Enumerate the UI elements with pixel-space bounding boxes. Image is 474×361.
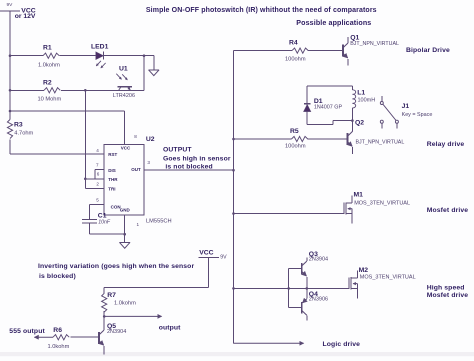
svg-text:U2: U2: [146, 136, 155, 143]
svg-text:3: 3: [147, 160, 150, 165]
junction C1 / GND lead: [123, 233, 126, 236]
junction R7 / Q5 collector / output: [103, 315, 106, 318]
svg-text:MOS_3TEN_VIRTUAL: MOS_3TEN_VIRTUAL: [354, 200, 410, 206]
svg-text:9V: 9V: [7, 2, 14, 8]
transistor Q5 slants: [99, 330, 104, 335]
inductor L1 coil: [352, 90, 355, 108]
svg-text:R3: R3: [14, 121, 23, 128]
ground G2 stub and bar: [119, 215, 130, 243]
LED LED1 body: [96, 52, 104, 60]
svg-text:High speed: High speed: [427, 284, 465, 291]
power VCC2: [199, 258, 219, 288]
ground G2 vee: [119, 242, 130, 248]
wire Q3 collector/emitter leads: [306, 257, 308, 288]
svg-text:Key = Space: Key = Space: [402, 112, 433, 118]
transistor Q1 collector/emitter slants: [343, 43, 348, 48]
junction rail-R1: [9, 54, 12, 57]
svg-text:BJT_NPN_VIRTUAL: BJT_NPN_VIRTUAL: [350, 41, 399, 47]
wire Q2 collector/emitter leads: [352, 121, 354, 154]
wire logic drive with arrow: [234, 342, 304, 344]
svg-text:10 Mohm: 10 Mohm: [38, 96, 62, 102]
junction bus-OUT: [232, 169, 235, 172]
svg-text:OUTPUT: OUTPUT: [163, 147, 192, 154]
svg-text:Simple ON-OFF photoswitch (IR): Simple ON-OFF photoswitch (IR) whithout …: [146, 7, 377, 14]
ground G1 vee: [149, 70, 160, 76]
transistor Q4 slants: [303, 299, 307, 303]
junction bus-R5: [232, 138, 235, 141]
ground G1 stub and bar: [149, 56, 160, 70]
switch J1 lever and contacts: [383, 104, 396, 120]
svg-text:1.0kohm: 1.0kohm: [48, 344, 70, 350]
junction bus-pushpull: [232, 287, 235, 290]
switch J1 stubs: [382, 96, 397, 129]
resistor R7 leads: [103, 288, 105, 317]
diode D1 body: [304, 105, 311, 112]
svg-text:MOS_3TEN_VIRTUAL: MOS_3TEN_VIRTUAL: [360, 274, 416, 280]
svg-text:OUT: OUT: [131, 167, 141, 172]
wire LED to ground: [103, 55, 153, 57]
LED LED1 emission arrows: [96, 61, 101, 66]
svg-text:4: 4: [96, 148, 99, 153]
svg-text:2N3904: 2N3904: [309, 257, 328, 263]
wire R1 branch: [10, 55, 96, 57]
transistor Q2 base bar: [347, 133, 349, 145]
svg-text:BJT_NPN_VIRTUAL: BJT_NPN_VIRTUAL: [356, 140, 405, 146]
svg-text:LTR4206: LTR4206: [113, 93, 135, 99]
op-amp U2 LM555CH box: [104, 145, 144, 215]
phototransistor U1 base bar: [117, 86, 132, 88]
wire D1 loop: [307, 86, 352, 125]
resistor R7: [102, 293, 107, 312]
wire VCC to pin8: [10, 111, 125, 145]
power VCC1 9V/12V rail symbol: [0, 11, 20, 120]
wire OUT pin3: [144, 169, 234, 171]
svg-text:Mosfet drive: Mosfet drive: [427, 292, 469, 299]
wire R2 branch: [10, 89, 144, 91]
svg-text:R4: R4: [289, 39, 298, 46]
transistor Q1 base bar: [342, 45, 344, 57]
svg-text:output: output: [159, 325, 181, 332]
svg-text:8: 8: [134, 134, 137, 139]
wire Q1 collector/emitter leads: [347, 37, 349, 66]
junction bus-M1: [232, 212, 235, 215]
wire output with arrow: [104, 315, 161, 317]
junction R2 wire / TRI riser: [84, 89, 87, 92]
junction Q3 Q4 emitters: [306, 287, 309, 290]
svg-text:U1: U1: [119, 66, 128, 73]
svg-text:RST: RST: [108, 152, 117, 157]
wire M1 branch: [234, 213, 344, 215]
svg-text:1.0kohm: 1.0kohm: [114, 301, 136, 307]
junction Q3 Q4 base riser: [287, 287, 290, 290]
capacitor C1: [82, 219, 97, 223]
junction rail-VCC pin8 wire: [9, 110, 12, 113]
svg-text:C1: C1: [98, 212, 107, 219]
svg-text:10nF: 10nF: [98, 219, 111, 225]
LED1 cathode bar: [102, 52, 104, 60]
svg-text:Logic drive: Logic drive: [323, 341, 361, 348]
svg-text:1: 1: [137, 222, 140, 227]
svg-text:LED1: LED1: [91, 43, 109, 50]
resistor R3: [7, 120, 12, 139]
svg-text:GND: GND: [120, 207, 131, 212]
phototransistor U1 legs and photon arrows: [119, 87, 121, 90]
wire push-pull branch: [234, 287, 350, 289]
wire base riser: [288, 269, 290, 308]
svg-text:100ohm: 100ohm: [285, 144, 306, 150]
svg-text:THR: THR: [108, 177, 118, 182]
wire DIS/THR/TRI plumbing: [85, 90, 104, 188]
svg-text:or 12V: or 12V: [15, 13, 36, 20]
svg-text:Possible applications: Possible applications: [296, 19, 371, 27]
wire bus: [233, 51, 235, 344]
svg-text:1N4007 GP: 1N4007 GP: [314, 105, 343, 111]
mosfet M2 bars and leads: [348, 277, 350, 289]
wire R6 leads: [71, 336, 100, 338]
wire CON to C1: [90, 205, 105, 219]
resistor R2: [44, 88, 60, 93]
svg-text:9V: 9V: [220, 255, 227, 261]
transistor Q4 base wire and bar: [289, 307, 302, 309]
junction D1 loop / Q2 collector: [351, 119, 354, 122]
svg-text:R5: R5: [290, 128, 299, 135]
transistor Q5 base bar: [98, 332, 100, 344]
wire collector riser: [143, 56, 145, 91]
svg-text:5: 5: [96, 197, 99, 202]
resistor R1: [43, 53, 59, 58]
svg-text:L1: L1: [357, 89, 365, 96]
svg-text:Mosfet drive: Mosfet drive: [427, 207, 469, 214]
svg-text:TRI: TRI: [108, 187, 115, 192]
svg-text:Goes high in sensor: Goes high in sensor: [163, 155, 231, 162]
svg-text:100ohm: 100ohm: [285, 57, 306, 63]
junction LED wire / U1 collector riser: [143, 54, 146, 57]
transistor Q3 base wire and bar: [289, 268, 302, 270]
diode D1 cathode bar: [304, 103, 311, 105]
inductor L1 leads: [351, 86, 353, 121]
svg-text:2: 2: [96, 182, 99, 187]
svg-text:VCC: VCC: [199, 249, 213, 256]
svg-text:DIS: DIS: [108, 168, 116, 173]
junction THR stub: [84, 178, 87, 181]
wire left rail lower: [9, 140, 11, 155]
junction rail-R2: [9, 89, 12, 92]
transistor Q3 slants: [302, 261, 307, 266]
mosfet M1 bars and leads: [343, 203, 345, 215]
resistor R4: [292, 48, 308, 53]
svg-text:VCC: VCC: [121, 145, 131, 150]
svg-text:100mH: 100mH: [358, 98, 376, 104]
wire 555 output lead with arrow: [35, 336, 54, 338]
svg-text:2N3904: 2N3904: [107, 329, 126, 335]
resistor R5: [292, 136, 308, 141]
wire VCC2 to R7: [104, 287, 209, 289]
wire Q4 emitter/collector leads: [306, 288, 308, 320]
mosfet M2 body arrow: [353, 283, 357, 285]
svg-text:R2: R2: [43, 80, 52, 87]
svg-text:1.0kohm: 1.0kohm: [38, 62, 60, 68]
svg-text:R1: R1: [43, 44, 52, 51]
wire R5 branch: [234, 138, 348, 140]
svg-text:R6: R6: [53, 327, 62, 334]
svg-text:7: 7: [96, 162, 99, 167]
svg-text:Relay drive: Relay drive: [427, 141, 465, 148]
svg-text:is blocked): is blocked): [39, 273, 76, 280]
svg-text:R7: R7: [107, 292, 116, 299]
wire Q5 collector/emitter leads: [103, 316, 105, 354]
svg-text:555 output: 555 output: [9, 328, 45, 335]
svg-text:J1: J1: [402, 103, 410, 110]
wire R4 branch: [234, 50, 344, 52]
svg-text:M2: M2: [359, 267, 369, 274]
svg-text:Bipolar Drive: Bipolar Drive: [406, 47, 450, 54]
svg-text:4.7ohm: 4.7ohm: [14, 130, 33, 136]
svg-text:Inverting variation (goes high: Inverting variation (goes high when the …: [38, 263, 194, 270]
resistor R6: [53, 335, 69, 340]
wire RST line: [10, 153, 104, 155]
svg-text:is not blocked: is not blocked: [165, 164, 212, 171]
mosfet M1 body arrow: [348, 208, 352, 210]
svg-text:Q2: Q2: [355, 120, 364, 127]
transistor Q2 slants: [348, 131, 353, 136]
svg-text:6: 6: [97, 172, 100, 177]
svg-text:2N3906: 2N3906: [309, 297, 328, 303]
svg-text:LM555CH: LM555CH: [146, 218, 172, 224]
svg-text:M1: M1: [354, 192, 364, 199]
